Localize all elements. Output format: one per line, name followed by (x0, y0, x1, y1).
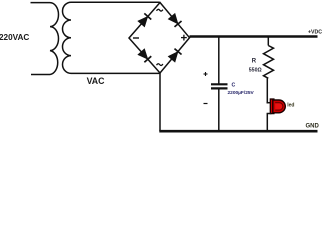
wire: bridge negative node down to ground rail (159, 73, 161, 131)
wire: capacitor bottom lead (218, 89, 220, 131)
plus mark at bridge positive node (181, 35, 187, 41)
svg-text:led: led (287, 102, 294, 108)
AC tilde mark at bottom bridge node (157, 64, 163, 66)
svg-text:C: C (232, 83, 236, 89)
minus mark at bridge negative node (133, 37, 139, 39)
wire: resistor top lead (267, 37, 269, 46)
svg-text:220VAC: 220VAC (0, 33, 29, 42)
diode D3 (lower-left arm) (138, 49, 152, 63)
capacitor minus polarity mark (204, 103, 208, 105)
wire: +VDC rail (190, 35, 318, 37)
svg-text:2200µF/25V: 2200µF/25V (228, 90, 255, 96)
svg-text:GND: GND (306, 124, 320, 130)
transformer T1 primary winding (50, 3, 59, 75)
capacitor C top plate (211, 83, 228, 85)
svg-text:+VDC: +VDC (308, 29, 322, 35)
wire: secondary top lead to bridge AC node (71, 1, 160, 3)
AC tilde mark at top bridge node (157, 9, 163, 11)
wire: ground rail (159, 130, 317, 133)
svg-text:550Ω: 550Ω (249, 68, 262, 74)
wire: LED cathode down to ground rail (266, 114, 268, 132)
wire: secondary bottom lead to bridge AC node (71, 72, 160, 74)
svg-text:R: R (252, 59, 257, 65)
wire: transformer primary top lead (31, 2, 51, 4)
wire: transformer primary bottom lead (31, 74, 50, 76)
diode D4 (lower-right arm) (168, 49, 181, 63)
wire: LED cathode leg (267, 113, 272, 115)
svg-text:VAC: VAC (87, 76, 106, 86)
LED body (red indicator LED) (270, 99, 285, 114)
bridge rectifier diamond (129, 3, 190, 74)
capacitor C bottom plate (211, 87, 228, 89)
capacitor plus polarity mark (204, 72, 208, 76)
diode D1 (upper-left arm) (138, 13, 152, 27)
diode D2 (upper-right arm) (168, 13, 181, 27)
wire: LED anode leg (267, 102, 272, 104)
wire: resistor bottom lead down to LED anode leg (266, 78, 268, 103)
resistor R zigzag (264, 46, 274, 79)
wire: capacitor top lead (218, 37, 220, 85)
transformer T1 secondary winding (63, 2, 71, 73)
